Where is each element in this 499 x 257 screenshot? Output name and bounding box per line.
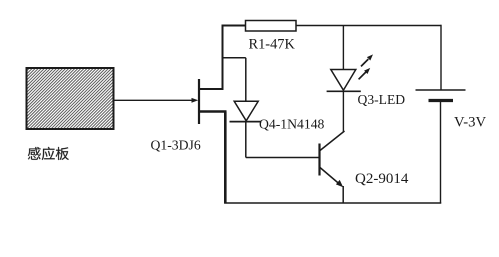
label 感应板 <box>28 147 69 160</box>
svg-text:V-3V: V-3V <box>454 115 486 131</box>
diode Q4 cathode bar <box>230 121 262 123</box>
svg-text:Q2-9014: Q2-9014 <box>355 171 409 187</box>
diode Q4 triangle <box>234 101 258 121</box>
svg-text:Q1-3DJ6: Q1-3DJ6 <box>151 138 201 153</box>
svg-text:Q4-1N4148: Q4-1N4148 <box>259 117 325 132</box>
Q1 source lead <box>199 110 227 113</box>
wire: right rail down to battery <box>440 25 442 90</box>
wire: LED cathode down to Q2 collector <box>342 91 344 131</box>
svg-text:Q3-LED: Q3-LED <box>358 92 406 107</box>
Q2 emitter diagonal <box>320 168 340 185</box>
wire: branch to diode (horizontal) <box>223 57 246 59</box>
板 <box>56 147 69 160</box>
LED light arrow 2 <box>359 72 366 79</box>
Q2 emitter arrowhead <box>336 180 343 187</box>
wire: to Q2 base <box>246 157 319 159</box>
battery V positive plate <box>416 89 466 91</box>
应 <box>42 147 55 160</box>
LED Q3 triangle <box>331 70 356 91</box>
wire: drain up <box>222 25 224 90</box>
Q1 drain lead <box>199 88 224 90</box>
wire: diode cathode down <box>245 122 247 158</box>
wire: Q1 source down to bottom rail <box>224 112 227 204</box>
battery V negative plate <box>429 99 454 102</box>
wire: resistor to top right corner <box>296 25 442 27</box>
LED light arrow 1 <box>361 59 368 66</box>
wire: top left to resistor <box>222 25 247 27</box>
Q2 collector diagonal <box>320 131 345 151</box>
wire: bottom rail <box>224 202 441 204</box>
感 <box>28 147 41 160</box>
wire: top rail down to LED anode <box>342 26 344 70</box>
sensing plate (hatched box) <box>27 68 114 129</box>
resistor R1 body <box>246 21 297 32</box>
LED Q3 cathode bar <box>327 90 361 92</box>
wire: branch down to diode anode <box>245 58 247 102</box>
arrowhead into Q1 gate <box>192 98 199 103</box>
svg-text:R1-47K: R1-47K <box>249 37 296 53</box>
transistor Q1 gate bar <box>198 79 200 124</box>
transistor Q2 base bar <box>318 144 320 176</box>
wire: emitter down to bottom rail <box>342 186 344 204</box>
wire: plate to Q1 gate <box>114 99 196 101</box>
wire: battery down to bottom rail <box>440 101 442 204</box>
